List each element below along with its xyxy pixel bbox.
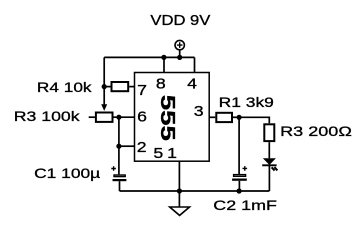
capacitor C2 top plate [234, 175, 246, 177]
ground [170, 207, 190, 215]
wire R3 200 to LED [268, 142, 270, 158]
wire R4 to pin 7 [129, 86, 134, 88]
capacitor C2 plus sign [243, 166, 248, 171]
node junction dot at R4 left [102, 84, 107, 89]
wire C1 to bottom rail [119, 181, 121, 191]
node junction dot on rail (pin 8 tee) [161, 55, 166, 60]
svg-text:3: 3 [194, 103, 204, 119]
svg-text:4: 4 [187, 76, 197, 92]
svg-text:2: 2 [137, 139, 147, 155]
wire pot to pin 6 [114, 116, 135, 118]
svg-text:R1 3k9: R1 3k9 [219, 96, 275, 111]
wire LED to bottom rail [268, 165, 270, 191]
svg-text:7: 7 [137, 82, 147, 98]
svg-text:R3 100k: R3 100k [14, 110, 80, 125]
LED D1 cathode bar [262, 164, 276, 166]
node junction dot pin6 branch [116, 115, 121, 120]
svg-text:1: 1 [167, 145, 177, 161]
wire pin 1 drop [178, 161, 180, 191]
op-amp U1 555 chip body [135, 73, 210, 162]
svg-text:C1 100µ: C1 100µ [34, 167, 100, 182]
svg-text:C2 1mF: C2 1mF [213, 198, 277, 214]
capacitor C1 bottom plate [113, 179, 127, 181]
capacitor C1 plus sign [111, 166, 116, 171]
wire ground stub [178, 191, 180, 207]
wire C2 to bottom rail [238, 181, 240, 191]
node junction dot on rail (VDD tee) [177, 55, 182, 60]
svg-text:VDD 9V: VDD 9V [150, 13, 211, 29]
resistor R3 200 [264, 124, 274, 141]
wire junction to R3 200 top [239, 117, 269, 123]
svg-text:R4 10k: R4 10k [37, 80, 92, 95]
wire dot to R4 [104, 86, 110, 88]
potentiometer R3 body [96, 113, 113, 122]
svg-text:555: 555 [156, 95, 178, 141]
wire left vertical from rail to pot wiper [103, 57, 105, 105]
node junction dot ground tee [177, 188, 182, 193]
capacitor C2 bottom plate [232, 179, 247, 181]
wire junction to C2 [238, 117, 240, 174]
node junction dot R1 output [237, 115, 242, 120]
wire pot left stub [89, 116, 95, 118]
node junction dot pin2 branch [116, 144, 121, 149]
node junction dot C2 bottom [237, 188, 242, 193]
wire vertical branch to pin2 and C1 [118, 117, 120, 174]
potentiometer wiper arrow [101, 104, 107, 111]
resistor R1 [216, 113, 232, 122]
wire to pin 2 [119, 145, 135, 147]
wire bottom rail [120, 190, 270, 192]
wire pin 3 to R1 [209, 116, 215, 118]
power symbol VDD [175, 40, 184, 57]
svg-text:8: 8 [156, 76, 166, 92]
wire top rail VDD [104, 56, 194, 58]
wire pin 8 drop [163, 57, 165, 72]
svg-text:6: 6 [137, 109, 147, 125]
wire pin 4 drop [194, 57, 196, 72]
LED D1 emission arrows [272, 167, 278, 171]
LED D1 triangle [263, 158, 276, 165]
wire R1 to junction [233, 116, 239, 118]
svg-text:5: 5 [153, 145, 163, 161]
capacitor C1 top plate [114, 175, 125, 177]
svg-text:R3 200Ω: R3 200Ω [280, 124, 352, 140]
resistor R4 [112, 82, 129, 91]
